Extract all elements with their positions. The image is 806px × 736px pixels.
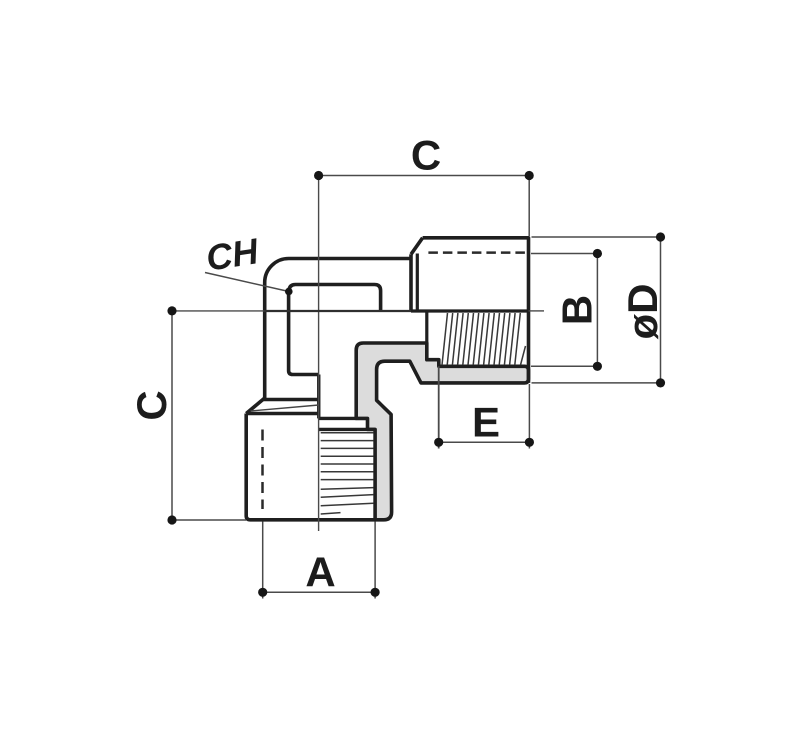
axis line of right port (172, 310, 544, 312)
CH leader dot (285, 288, 293, 296)
dimension C (left) (172, 311, 246, 520)
svg-text:øD: øD (619, 284, 666, 340)
hidden thread line (dashed) lower port (261, 430, 264, 510)
section boundary at lower port centerline (317, 375, 320, 419)
sectioned elbow body material (gray cut face) (356, 343, 528, 520)
svg-text:A: A (305, 549, 335, 596)
lower port sectioned top face and thread step (319, 418, 375, 429)
lower port face chamfer ellipse edge (251, 405, 319, 411)
svg-text:E: E (472, 399, 500, 446)
dimension end dots (167, 171, 665, 597)
svg-text:B: B (554, 295, 601, 325)
elbow inner corner edge (CH flat) (289, 285, 381, 375)
dimension A (263, 522, 375, 599)
svg-text:C: C (128, 390, 175, 420)
lower port outer outline (246, 400, 375, 520)
svg-text:C: C (411, 132, 441, 179)
centerline of lower port (318, 176, 320, 532)
right port counterbore end edge (425, 311, 428, 343)
right port internal thread hatching (442, 313, 526, 365)
lower port internal thread hatching (321, 433, 374, 514)
dimension øD (532, 237, 663, 383)
elbow outer contour (246, 258, 411, 413)
CH leader line (205, 273, 289, 292)
dimension B (531, 254, 599, 367)
dimension E (439, 366, 530, 448)
right port outer outline (411, 238, 529, 383)
right port bore line at axis (411, 309, 529, 312)
dimension C (top) (319, 176, 530, 237)
svg-text:CH: CH (203, 230, 262, 279)
hidden thread line (dashed) right port (428, 251, 528, 254)
